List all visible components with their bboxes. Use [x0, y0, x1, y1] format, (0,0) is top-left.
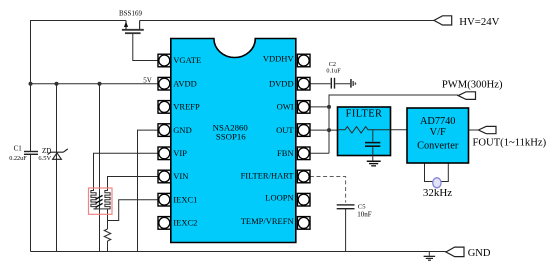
svg-text:VREFP: VREFP — [173, 102, 200, 112]
svg-text:FOUT(1~11kHz): FOUT(1~11kHz) — [473, 138, 547, 149]
svg-text:32kHz: 32kHz — [423, 187, 452, 199]
svg-text:V/F: V/F — [430, 127, 446, 138]
svg-text:Converter: Converter — [417, 141, 459, 152]
svg-text:IEXC2: IEXC2 — [173, 218, 197, 228]
svg-text:C1: C1 — [14, 145, 23, 153]
svg-text:C5: C5 — [358, 204, 366, 211]
svg-text:FBN: FBN — [277, 148, 294, 158]
svg-text:VIN: VIN — [173, 171, 188, 181]
svg-text:FILTER/HART: FILTER/HART — [241, 171, 295, 181]
svg-text:TEMP/VREFN: TEMP/VREFN — [241, 216, 294, 226]
svg-text:FILTER: FILTER — [346, 108, 383, 119]
svg-text:HV=24V: HV=24V — [459, 16, 499, 28]
svg-text:LOOPN: LOOPN — [265, 193, 293, 203]
svg-text:0.1uF: 0.1uF — [326, 67, 341, 74]
svg-text:AVDD: AVDD — [173, 78, 196, 88]
svg-text:6.5V: 6.5V — [38, 155, 51, 162]
svg-text:5V: 5V — [143, 77, 152, 85]
svg-text:OWI: OWI — [277, 102, 294, 112]
svg-text:OUT: OUT — [276, 125, 294, 135]
svg-text:IEXC1: IEXC1 — [173, 194, 197, 204]
svg-text:GND: GND — [468, 248, 491, 259]
svg-text:BSS169: BSS169 — [119, 10, 142, 18]
svg-text:ZD: ZD — [42, 147, 51, 155]
svg-text:10nF: 10nF — [357, 211, 372, 219]
svg-text:0.22uF: 0.22uF — [9, 155, 27, 162]
svg-text:DVDD: DVDD — [269, 78, 294, 88]
svg-text:VGATE: VGATE — [173, 55, 201, 65]
svg-text:SSOP16: SSOP16 — [216, 132, 246, 142]
svg-text:PWM(300Hz): PWM(300Hz) — [442, 80, 503, 91]
svg-text:AD7740: AD7740 — [420, 116, 455, 127]
svg-text:VIP: VIP — [173, 148, 187, 158]
svg-text:VDDHV: VDDHV — [263, 54, 295, 64]
svg-text:GND: GND — [173, 125, 191, 135]
